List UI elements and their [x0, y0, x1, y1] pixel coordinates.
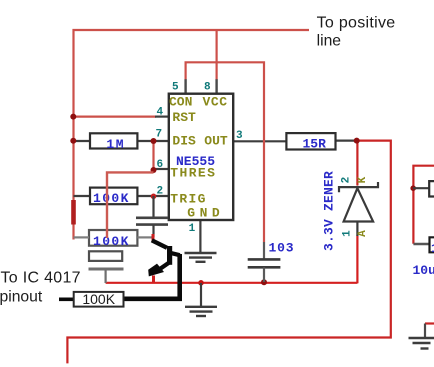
wire pin4 stub — [155, 115, 169, 117]
node RST junction — [70, 114, 76, 120]
wire ground bus — [106, 282, 358, 284]
wire 1M left lead — [74, 140, 91, 142]
svg-text:1M: 1M — [106, 137, 125, 152]
wire output loop from 15R — [67, 141, 390, 364]
svg-text:VCC: VCC — [203, 94, 228, 109]
resistor far right partial — [413, 181, 434, 196]
node THRES junction — [151, 167, 157, 173]
wire emitter red stub — [152, 276, 155, 284]
capacitor C1 trigger — [136, 196, 168, 237]
wire pin6 stub — [154, 168, 169, 170]
transistor Q1 — [124, 240, 180, 298]
svg-text:TRIG: TRIG — [170, 192, 206, 207]
wire pin5 stub — [184, 79, 186, 94]
node 1M left junction — [70, 138, 76, 144]
wire DIS to THRES red link — [152, 140, 154, 172]
resistor R4 100K annotation — [59, 291, 124, 307]
ground IC gnd — [185, 253, 217, 262]
wire pin3 lead — [233, 140, 286, 142]
svg-text:CON: CON — [169, 94, 192, 109]
wire pin8 stub — [215, 79, 217, 94]
wire R3 right lead — [137, 236, 152, 238]
svg-text:100K: 100K — [93, 191, 130, 206]
diode D1 zener 3.3V — [322, 171, 379, 251]
svg-text:15R: 15R — [303, 136, 327, 151]
wire 15R right lead — [336, 140, 357, 142]
svg-text:100K: 100K — [82, 291, 115, 307]
svg-text:7: 7 — [156, 128, 163, 140]
resistor R3 100K — [89, 230, 137, 249]
svg-text:4: 4 — [157, 106, 164, 118]
wire CON pin5 to control cap — [186, 62, 264, 242]
node control cap to bus junction — [261, 279, 267, 285]
wire far right stage — [413, 166, 434, 244]
node DIS junction — [151, 138, 157, 144]
op-amp U1 NE555 body — [169, 94, 233, 221]
svg-text:5: 5 — [172, 82, 179, 94]
resistor R1 1M — [90, 133, 137, 152]
node far right junction — [410, 185, 416, 191]
svg-text:2: 2 — [157, 186, 164, 198]
wire R3 left lead — [74, 236, 90, 238]
capacitor far right partial 10u — [413, 237, 434, 278]
wire THRES to divider mod — [107, 172, 154, 238]
svg-text:3: 3 — [236, 130, 243, 142]
svg-text:1: 1 — [342, 230, 354, 237]
svg-text:DIS: DIS — [172, 134, 196, 149]
wire 1M right lead — [137, 140, 168, 142]
wire zener anode red — [356, 235, 358, 283]
svg-text:RST: RST — [172, 110, 196, 125]
wire thick red overlay on left vertical — [71, 200, 76, 225]
svg-text:OUT: OUT — [204, 134, 228, 149]
svg-text:3.3V ZENER: 3.3V ZENER — [322, 171, 337, 251]
svg-text:To positive: To positive — [317, 15, 396, 32]
wire top positive bus — [74, 30, 310, 240]
svg-text:1: 1 — [189, 223, 196, 235]
node bus ground junction — [198, 280, 204, 286]
svg-text:6: 6 — [157, 159, 164, 171]
wire base red mark — [152, 234, 155, 242]
resistor R5 15R — [286, 133, 335, 151]
wire VCC pin8 vertical — [216, 29, 218, 80]
svg-text:pinout: pinout — [0, 288, 43, 305]
svg-text:103: 103 — [269, 241, 295, 256]
svg-text:To IC 4017: To IC 4017 — [1, 270, 81, 287]
wire bottom right ground red stub — [425, 322, 434, 324]
svg-text:GND: GND — [187, 206, 224, 221]
svg-text:8: 8 — [204, 82, 211, 94]
wire zener cathode red — [356, 141, 358, 186]
capacitor C2 electrolytic — [89, 251, 124, 283]
svg-text:A: A — [357, 230, 369, 237]
svg-text:2: 2 — [341, 177, 353, 184]
capacitor C3 103 — [248, 241, 295, 282]
svg-text:10u: 10u — [413, 263, 434, 278]
resistor R2 100K — [90, 188, 137, 206]
svg-text:K: K — [357, 176, 369, 183]
wire RST red — [73, 115, 157, 117]
ground bottom right — [409, 324, 434, 349]
svg-text:line: line — [317, 33, 342, 50]
wire gnd pin stub — [199, 220, 201, 253]
wire R2 left lead — [74, 195, 91, 197]
svg-text:THRES: THRES — [170, 166, 216, 181]
node OUT junction — [354, 138, 360, 144]
node TRIG junction — [151, 194, 157, 200]
wire R2 right lead pin2 stub — [137, 195, 168, 197]
svg-text:100K: 100K — [93, 234, 130, 249]
ground bus ground — [185, 283, 217, 316]
